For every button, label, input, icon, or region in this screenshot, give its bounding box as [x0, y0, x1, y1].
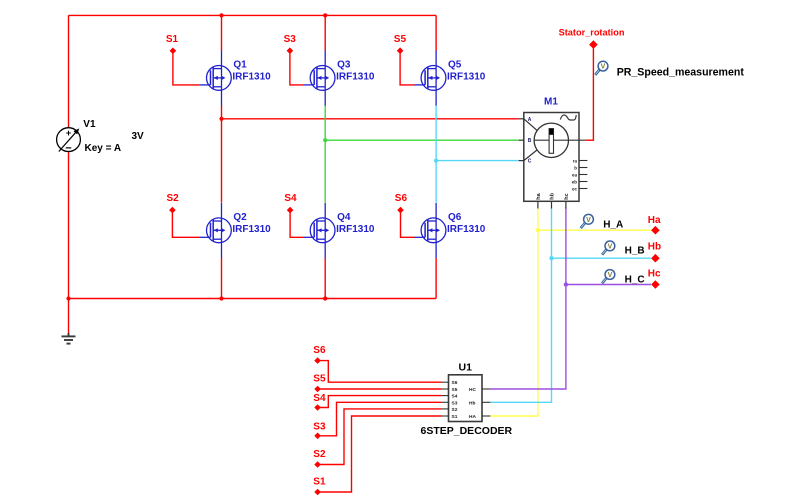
svg-text:S6: S6 — [452, 380, 458, 386]
svg-text:S1: S1 — [452, 414, 458, 420]
svg-text:+: + — [66, 128, 71, 138]
svg-text:S2: S2 — [452, 407, 458, 413]
svg-text:IRF1310: IRF1310 — [232, 72, 271, 83]
svg-text:H_C: H_C — [625, 274, 645, 285]
svg-text:S5: S5 — [313, 374, 326, 385]
svg-text:Key = A: Key = A — [85, 143, 122, 154]
svg-text:IRF1310: IRF1310 — [232, 224, 271, 235]
svg-text:Hc: Hc — [648, 269, 661, 280]
svg-text:Stator_rotation: Stator_rotation — [559, 28, 625, 38]
svg-text:HA: HA — [469, 414, 476, 420]
svg-text:ea: ea — [572, 172, 578, 177]
svg-text:S6: S6 — [313, 345, 326, 356]
svg-text:A: A — [528, 117, 532, 123]
svg-text:IRF1310: IRF1310 — [336, 224, 375, 235]
svg-text:S3: S3 — [284, 34, 297, 45]
svg-text:Ha: Ha — [648, 215, 661, 226]
svg-text:IRF1310: IRF1310 — [447, 224, 486, 235]
svg-text:Q5: Q5 — [448, 60, 462, 71]
svg-text:H_A: H_A — [603, 220, 623, 231]
svg-text:S6: S6 — [395, 193, 408, 204]
svg-text:U1: U1 — [459, 362, 473, 374]
svg-text:S1: S1 — [313, 477, 326, 488]
svg-text:ra: ra — [573, 158, 578, 163]
svg-text:Hb: Hb — [648, 242, 661, 253]
svg-text:3V: 3V — [132, 131, 145, 142]
svg-text:S1: S1 — [166, 34, 179, 45]
svg-text:C: C — [528, 159, 532, 165]
svg-text:S4: S4 — [452, 394, 458, 400]
svg-text:ec: ec — [572, 186, 578, 191]
svg-text:hb: hb — [550, 192, 556, 199]
svg-text:S3: S3 — [313, 422, 326, 433]
svg-text:S4: S4 — [284, 193, 297, 204]
svg-text:S4: S4 — [313, 393, 326, 404]
svg-text:−: − — [65, 143, 71, 155]
svg-text:Hb: Hb — [469, 400, 475, 406]
svg-text:S5: S5 — [452, 387, 458, 393]
svg-text:IRF1310: IRF1310 — [336, 72, 375, 83]
svg-text:hc: hc — [564, 193, 570, 199]
svg-text:Q3: Q3 — [337, 60, 351, 71]
svg-text:ha: ha — [536, 192, 542, 199]
svg-text:6STEP_DECODER: 6STEP_DECODER — [421, 425, 513, 437]
svg-text:H_B: H_B — [625, 246, 645, 257]
svg-text:S2: S2 — [313, 449, 326, 460]
svg-text:B: B — [528, 138, 532, 144]
svg-text:V1: V1 — [83, 119, 96, 130]
svg-text:Q6: Q6 — [448, 212, 462, 223]
svg-text:S2: S2 — [167, 193, 180, 204]
svg-text:b: b — [574, 165, 577, 170]
svg-text:Q1: Q1 — [233, 60, 247, 71]
svg-text:M1: M1 — [544, 96, 558, 107]
svg-text:Q2: Q2 — [233, 212, 247, 223]
svg-text:S3: S3 — [452, 400, 458, 406]
svg-text:eb: eb — [572, 179, 578, 184]
svg-text:S5: S5 — [394, 34, 407, 45]
svg-text:Q4: Q4 — [337, 212, 351, 223]
svg-text:IRF1310: IRF1310 — [447, 72, 486, 83]
svg-text:HC: HC — [469, 387, 476, 393]
svg-text:PR_Speed_measurement: PR_Speed_measurement — [617, 67, 745, 79]
